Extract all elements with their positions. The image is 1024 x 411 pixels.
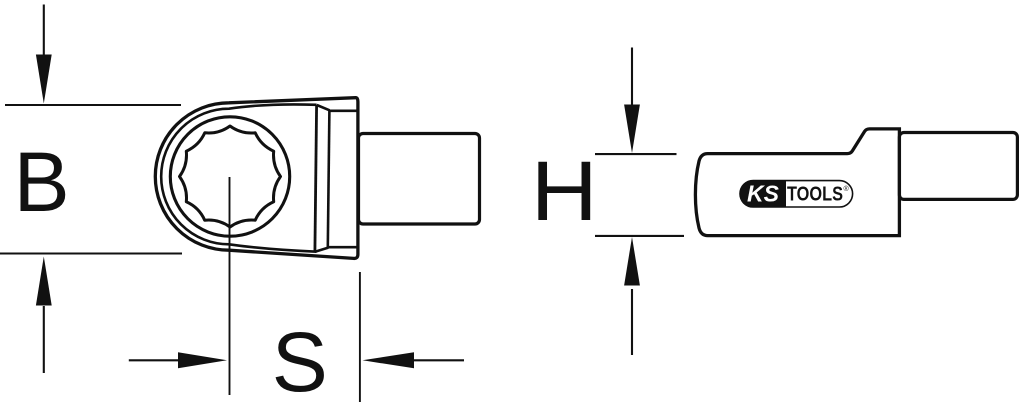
collar left edge [315, 105, 317, 252]
12-point socket profile [180, 126, 281, 227]
svg-text:S: S [272, 315, 328, 409]
tang (9x12 insert shank) [359, 134, 480, 225]
collar bottom chamfer [315, 248, 328, 252]
dimension H bottom arrow [624, 237, 640, 355]
dimension S right arrow [363, 352, 465, 368]
KS TOOLS logo pill [740, 181, 853, 207]
dimension B top arrow [36, 5, 52, 104]
ring face inner contour [161, 104, 316, 251]
ring wrench head outer silhouette [155, 98, 358, 259]
collar inner left edge [328, 111, 330, 248]
ring centre line (S left extension) [229, 177, 231, 395]
side view shaft [899, 133, 1017, 200]
collar inner bottom edge [328, 246, 358, 249]
ring bore circle [170, 117, 289, 236]
dimension H top line [595, 153, 677, 155]
svg-text:®: ® [844, 185, 850, 193]
svg-text:KS: KS [747, 181, 780, 207]
side view body [695, 129, 899, 236]
svg-text:TOOLS: TOOLS [787, 183, 843, 206]
svg-text:H: H [531, 144, 598, 238]
dimension B bottom extension line [0, 252, 182, 254]
dimension S left arrow [129, 352, 227, 368]
dimension H bottom line [595, 235, 684, 237]
S right extension line [359, 272, 361, 402]
KS TOOLS logo black half [740, 181, 786, 207]
dimension B bottom arrow [36, 257, 52, 374]
dimension H top arrow [624, 48, 640, 154]
dimension B top extension line [5, 104, 181, 106]
svg-text:B: B [14, 135, 70, 229]
collar top chamfer [317, 105, 330, 110]
collar inner top edge [329, 110, 357, 113]
